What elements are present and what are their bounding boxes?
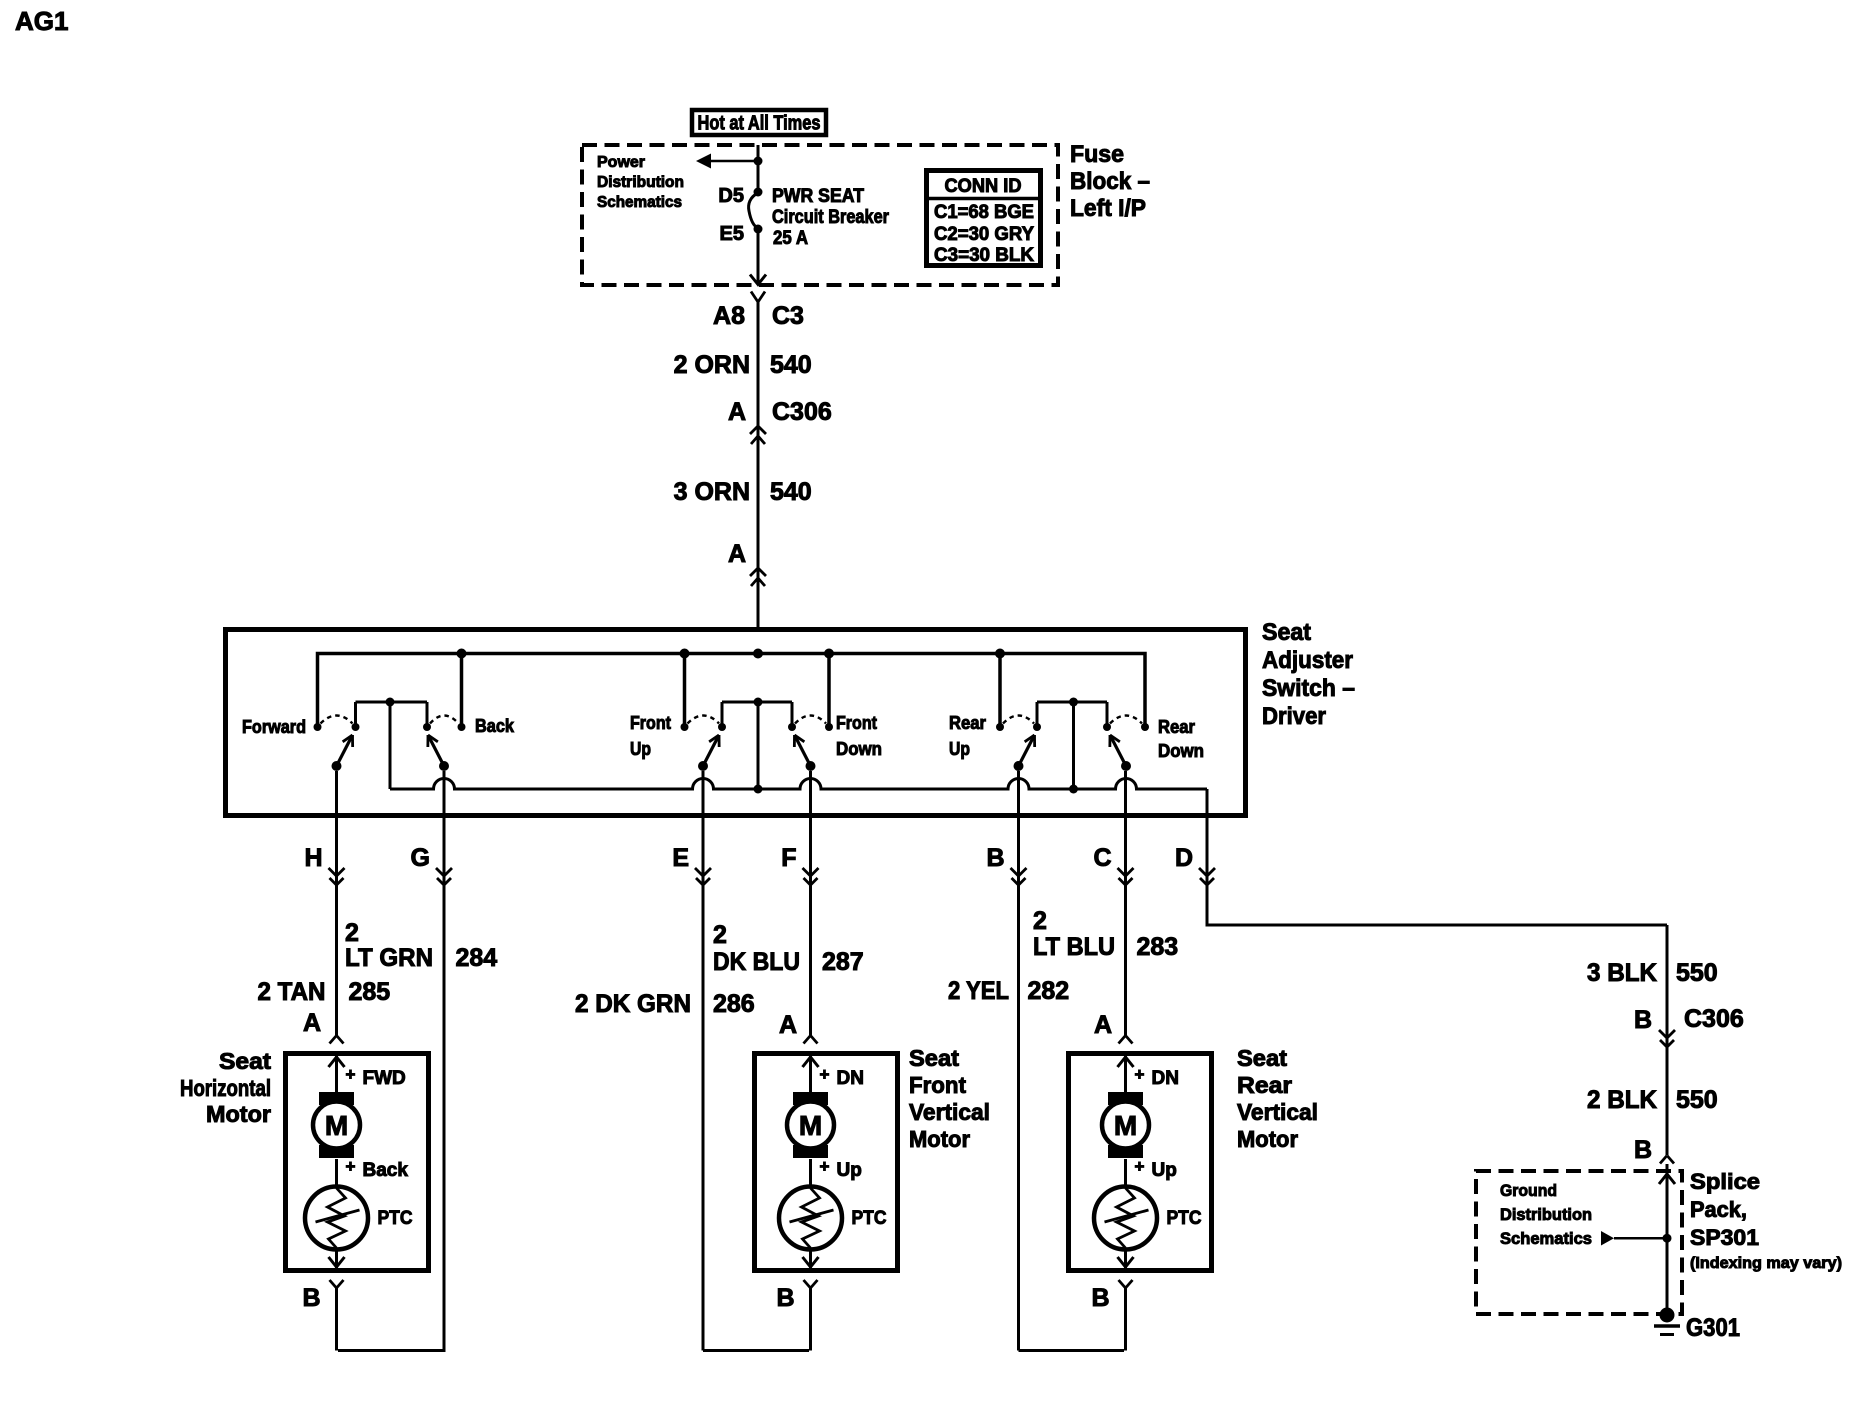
svg-text:CONN ID: CONN ID: [945, 176, 1022, 197]
svg-text:283: 283: [1137, 933, 1179, 961]
svg-text:2: 2: [713, 921, 727, 949]
svg-text:Motor: Motor: [909, 1126, 970, 1152]
svg-text:+: +: [346, 1065, 356, 1084]
svg-text:Hot at All Times: Hot at All Times: [698, 113, 821, 135]
svg-text:Front: Front: [909, 1072, 966, 1098]
svg-text:SP301: SP301: [1690, 1225, 1759, 1250]
svg-text:Motor: Motor: [206, 1101, 271, 1127]
svg-text:282: 282: [1028, 977, 1070, 1005]
svg-text:287: 287: [822, 948, 864, 976]
svg-text:3 BLK: 3 BLK: [1587, 959, 1657, 987]
svg-text:C3: C3: [772, 302, 804, 330]
svg-text:PWR SEAT: PWR SEAT: [772, 186, 864, 207]
svg-text:G: G: [411, 844, 430, 872]
svg-text:550: 550: [1676, 959, 1718, 987]
svg-text:2: 2: [1033, 907, 1047, 935]
svg-text:Front: Front: [630, 713, 671, 733]
svg-text:LT GRN: LT GRN: [345, 944, 433, 972]
svg-text:Seat: Seat: [909, 1045, 959, 1071]
svg-text:PTC: PTC: [1167, 1208, 1202, 1229]
svg-text:Schematics: Schematics: [597, 194, 682, 211]
svg-text:540: 540: [770, 351, 812, 379]
svg-text:B: B: [302, 1284, 320, 1312]
svg-text:Rear: Rear: [1237, 1072, 1292, 1098]
svg-text:Forward: Forward: [242, 717, 306, 737]
svg-text:D5: D5: [718, 185, 744, 207]
svg-text:2 TAN: 2 TAN: [258, 978, 326, 1006]
svg-text:C: C: [1093, 844, 1111, 872]
svg-text:Power: Power: [597, 154, 645, 171]
svg-text:Fuse: Fuse: [1070, 141, 1124, 168]
svg-text:Down: Down: [1158, 741, 1204, 761]
svg-text:Splice: Splice: [1690, 1169, 1760, 1194]
svg-text:284: 284: [456, 944, 498, 972]
svg-text:+: +: [346, 1157, 356, 1176]
svg-text:2 ORN: 2 ORN: [674, 351, 750, 379]
svg-text:Motor: Motor: [1237, 1126, 1298, 1152]
svg-text:B: B: [1091, 1284, 1109, 1312]
svg-text:25 A: 25 A: [773, 228, 808, 249]
svg-text:Rear: Rear: [1158, 717, 1195, 737]
svg-text:Back: Back: [363, 1160, 409, 1181]
svg-text:DN: DN: [837, 1068, 864, 1089]
svg-text:A: A: [303, 1009, 321, 1037]
svg-text:B: B: [776, 1284, 794, 1312]
svg-text:+: +: [820, 1065, 830, 1084]
svg-text:A: A: [1094, 1011, 1112, 1039]
svg-text:Down: Down: [836, 739, 882, 759]
svg-text:PTC: PTC: [378, 1208, 413, 1229]
svg-text:540: 540: [770, 478, 812, 506]
svg-text:+: +: [1135, 1065, 1145, 1084]
svg-text:Distribution: Distribution: [597, 174, 684, 191]
svg-text:A: A: [779, 1011, 797, 1039]
svg-text:H: H: [304, 844, 322, 872]
svg-text:LT BLU: LT BLU: [1033, 933, 1115, 961]
svg-text:Seat: Seat: [219, 1048, 271, 1074]
svg-text:E5: E5: [720, 223, 744, 245]
svg-text:2: 2: [345, 919, 359, 947]
svg-text:Seat: Seat: [1262, 619, 1311, 646]
svg-text:M: M: [799, 1110, 822, 1141]
svg-text:DK BLU: DK BLU: [713, 948, 800, 976]
svg-text:A: A: [728, 540, 746, 568]
svg-text:Driver: Driver: [1262, 703, 1326, 730]
svg-text:C3=30 BLK: C3=30 BLK: [934, 245, 1034, 266]
svg-text:B: B: [986, 844, 1004, 872]
svg-text:550: 550: [1676, 1086, 1718, 1114]
svg-text:DN: DN: [1152, 1068, 1179, 1089]
svg-text:Circuit Breaker: Circuit Breaker: [772, 207, 890, 228]
svg-text:Up: Up: [837, 1160, 862, 1181]
svg-text:D: D: [1175, 844, 1193, 872]
svg-text:F: F: [781, 844, 796, 872]
svg-text:Switch –: Switch –: [1262, 675, 1355, 702]
svg-text:+: +: [1135, 1157, 1145, 1176]
svg-text:AG1: AG1: [15, 6, 68, 36]
svg-text:B: B: [1634, 1006, 1652, 1034]
svg-text:Up: Up: [1152, 1160, 1177, 1181]
svg-text:+: +: [820, 1157, 830, 1176]
svg-text:C1=68 BGE: C1=68 BGE: [934, 202, 1034, 223]
svg-text:Adjuster: Adjuster: [1262, 647, 1353, 674]
svg-text:PTC: PTC: [852, 1208, 887, 1229]
svg-text:A: A: [728, 398, 746, 426]
svg-text:Seat: Seat: [1237, 1045, 1287, 1071]
svg-text:285: 285: [349, 978, 391, 1006]
svg-text:Vertical: Vertical: [909, 1099, 990, 1125]
svg-text:Front: Front: [836, 713, 877, 733]
svg-text:Up: Up: [949, 739, 970, 759]
svg-text:E: E: [672, 844, 689, 872]
svg-text:(Indexing may vary): (Indexing may vary): [1690, 1255, 1842, 1272]
svg-text:2 BLK: 2 BLK: [1587, 1086, 1657, 1114]
svg-text:M: M: [325, 1110, 348, 1141]
svg-text:Rear: Rear: [949, 713, 986, 733]
svg-text:FWD: FWD: [363, 1068, 406, 1089]
svg-text:286: 286: [713, 990, 755, 1018]
svg-text:Back: Back: [475, 716, 515, 736]
svg-text:3 ORN: 3 ORN: [674, 478, 750, 506]
svg-text:2 DK GRN: 2 DK GRN: [575, 990, 691, 1018]
svg-text:Distribution: Distribution: [1500, 1205, 1592, 1224]
svg-text:A8: A8: [713, 302, 745, 330]
svg-text:B: B: [1634, 1136, 1652, 1164]
svg-text:C2=30 GRY: C2=30 GRY: [934, 224, 1034, 245]
svg-text:C306: C306: [772, 398, 832, 426]
svg-text:G301: G301: [1686, 1314, 1740, 1342]
svg-text:Horizontal: Horizontal: [180, 1075, 271, 1101]
svg-text:Vertical: Vertical: [1237, 1099, 1318, 1125]
svg-text:Left I/P: Left I/P: [1070, 195, 1146, 222]
svg-text:M: M: [1114, 1110, 1137, 1141]
svg-text:2 YEL: 2 YEL: [948, 977, 1009, 1005]
svg-text:Up: Up: [630, 739, 651, 759]
svg-text:Block –: Block –: [1070, 168, 1150, 195]
svg-text:C306: C306: [1684, 1005, 1744, 1033]
svg-text:Ground: Ground: [1500, 1181, 1557, 1200]
svg-text:Pack,: Pack,: [1690, 1197, 1747, 1222]
svg-text:Schematics: Schematics: [1500, 1229, 1592, 1248]
